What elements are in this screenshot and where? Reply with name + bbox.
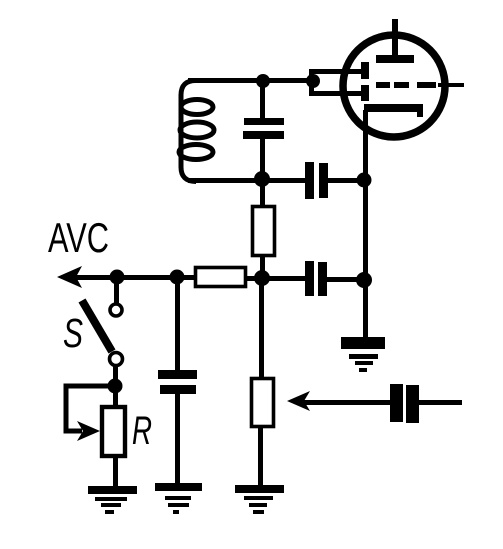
- node pot top junction: [108, 379, 123, 394]
- wire injection line: [303, 400, 391, 405]
- node bottom junction: [254, 171, 270, 187]
- wire input bracket vertical: [309, 69, 314, 96]
- tube V1 envelope: [343, 35, 445, 137]
- tube V1 cathode: [364, 104, 423, 117]
- wire upper grid lead: [309, 69, 362, 74]
- inductor L1: [179, 81, 214, 182]
- capacitor C1: [243, 118, 284, 139]
- capacitor C3: [305, 261, 327, 296]
- node grid input junction: [306, 74, 320, 88]
- resistor R1 lead lower: [260, 255, 265, 275]
- tube V1 anode lead: [392, 19, 398, 59]
- wire cathode lead down: [363, 110, 368, 342]
- wire bottom (coil to C2): [188, 178, 307, 183]
- node cathode upper junction: [357, 173, 372, 188]
- node R1 bottom junction: [254, 270, 270, 286]
- ground (R3): [235, 485, 284, 514]
- wire lower grid lead: [309, 91, 362, 96]
- resistor R (pot) lead upper: [113, 389, 118, 407]
- switch S upper contact: [110, 304, 122, 316]
- capacitor C5: [390, 384, 419, 423]
- svg-text:S: S: [63, 310, 83, 356]
- switch S blade: [79, 299, 116, 354]
- wire C4 lead upper: [175, 280, 180, 372]
- capacitor C1 lead upper: [260, 83, 265, 120]
- tube V1 grid (dashed): [376, 82, 436, 88]
- tube V1 input grid pin upper: [361, 62, 369, 79]
- wire C2 to cathode line: [328, 178, 360, 183]
- wire AVC arrowhead: [57, 266, 82, 288]
- node top junction: [256, 74, 270, 88]
- resistor R2 (horizontal): [196, 268, 246, 287]
- wire C4 lead lower: [175, 394, 180, 485]
- capacitor C4: [158, 370, 197, 394]
- resistor R3: [252, 379, 274, 427]
- wire top (coil to grid): [188, 78, 313, 83]
- ground (tube cathode): [341, 337, 385, 372]
- ground (C4): [155, 483, 202, 514]
- capacitor C2: [305, 162, 328, 199]
- resistor R3 lead upper: [259, 283, 264, 379]
- node AVC junction: [110, 270, 125, 285]
- switch S lower contact: [110, 353, 123, 366]
- wire wiper arrowhead: [77, 421, 100, 441]
- wire R2 to C3: [246, 276, 306, 281]
- wire C5 right: [419, 400, 462, 405]
- resistor R1 lead upper: [260, 185, 265, 207]
- resistor R (pot): [102, 407, 125, 456]
- svg-text:AVC: AVC: [48, 214, 109, 261]
- wire pot wiper loop: [66, 386, 115, 431]
- wire switch stub: [114, 277, 119, 304]
- capacitor C1 lead lower: [260, 139, 265, 181]
- wire AVC horizontal: [72, 275, 194, 280]
- node cathode lower junction: [356, 272, 372, 288]
- tube V1 grid lead right: [438, 83, 464, 87]
- tube V1 anode plate: [376, 55, 414, 63]
- wire C3 to cathode line: [327, 277, 360, 282]
- node C4 junction: [170, 270, 185, 285]
- resistor R1: [253, 207, 275, 256]
- wire switch to pot: [113, 365, 118, 383]
- resistor R3 lead lower: [258, 426, 263, 487]
- svg-text:R: R: [132, 409, 152, 453]
- tube V1 input grid pin lower: [361, 85, 369, 101]
- wire injection arrowhead: [287, 391, 310, 411]
- ground (pot): [88, 486, 137, 514]
- resistor R lead lower: [113, 456, 118, 487]
